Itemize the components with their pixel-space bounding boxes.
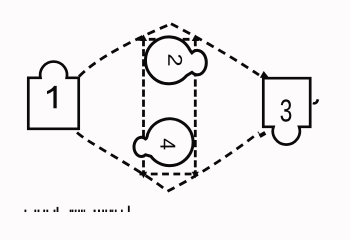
wire: dashed curve bottom vertex up to piece3 bottom-left corner [168, 133, 260, 192]
label 2 rotated 90cw [168, 55, 182, 66]
hook mark right of piece 3 [313, 99, 318, 103]
arrowhead down at right vertical bottom [192, 172, 199, 179]
label 3 [281, 99, 292, 121]
node box: dashed vertical line right [194, 39, 197, 174]
node box: dashed vertical line left [142, 39, 145, 174]
piece 4: circle with tab on left [134, 119, 193, 166]
wire: dashed curve piece1 top-right corner up to apex [79, 24, 171, 77]
arrowhead into piece3 bottom-left corner [260, 133, 266, 136]
arrowhead up at left vertical top [140, 35, 147, 42]
label 4 rotated 90cw [160, 139, 175, 150]
piece 3: square with tab on bottom [263, 78, 310, 144]
arrowhead into piece3 top-left corner [260, 71, 270, 79]
caption text cut off at bottom [25, 206, 130, 212]
wire: dashed line apex down to piece3 top-left corner [171, 24, 259, 75]
arrowhead up at right vertical top [192, 35, 199, 42]
wire: dashed curve piece1 bottom-right corner down to bottom vertex [77, 133, 168, 192]
piece 1: square with tab on top [28, 62, 78, 129]
piece 2: circle with tab on right [145, 37, 206, 84]
label 1 [47, 86, 57, 108]
node box: dashed horizontal line top [138, 38, 200, 41]
arrowhead down at left vertical bottom [140, 172, 147, 179]
node box: dashed horizontal line bottom [140, 173, 193, 176]
